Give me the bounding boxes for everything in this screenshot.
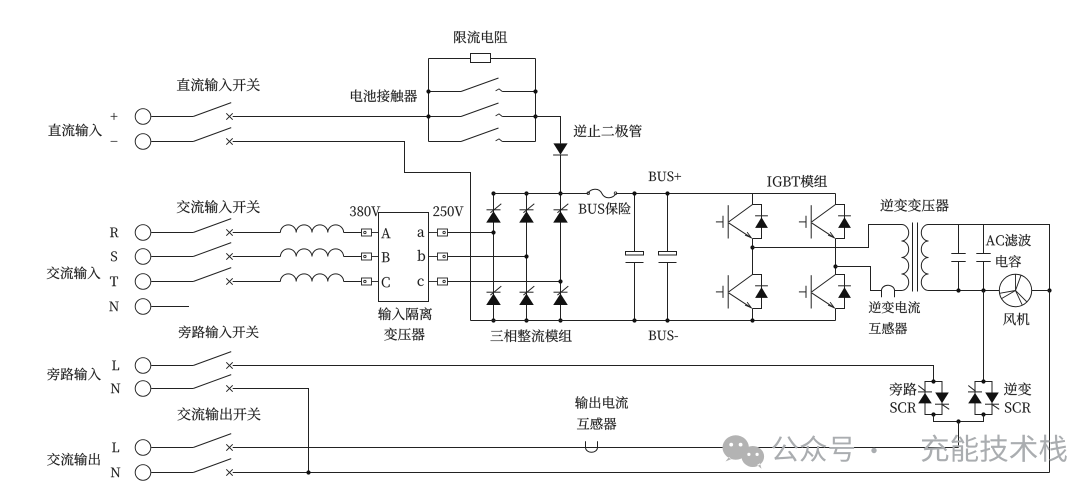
terminal AC N [109, 299, 150, 315]
inductor LS [280, 249, 343, 257]
terminal AC S [111, 249, 151, 265]
junction dot BUS- left IGBT leg [750, 318, 754, 322]
rectifier leg 2 wire [526, 194, 528, 321]
thyristor V3 top [553, 204, 568, 223]
label 直流输入 [48, 124, 102, 137]
IGBT Q3 top-right [799, 205, 851, 239]
wire BUS+ rail left [494, 193, 588, 195]
IGBT Q1 top-left [716, 205, 768, 239]
wire DC- to BUS- [233, 142, 471, 321]
thyristor 逆变SCR reverse [985, 393, 999, 410]
transformer pin b [418, 250, 448, 261]
diode D1 逆止二极管 [553, 143, 568, 155]
label 380V [350, 206, 380, 216]
label 互感器 [869, 322, 907, 334]
label IGBT模组 [767, 175, 827, 188]
thyristor pair 逆变SCR [968, 379, 992, 416]
label 旁路输入开关 [179, 326, 259, 339]
thyristor pair 旁路SCR [918, 379, 942, 416]
wire secondary top rail [929, 225, 1050, 291]
junction dots rectifier [491, 191, 495, 195]
wire phase a to rectifier [448, 232, 494, 234]
switch QF1 直流输入开关 + pole [151, 103, 233, 120]
wire switch to inductor R [233, 232, 281, 234]
transformer pin c [418, 278, 448, 286]
fuse FU1 BUS保险 [587, 189, 617, 198]
label 交流输入 [47, 267, 101, 280]
label 互感器(output) [577, 418, 616, 430]
label BUS保险 [579, 202, 631, 214]
label 逆止二极管 [574, 125, 642, 138]
label 旁路 [890, 383, 917, 396]
wire resistor branch [429, 58, 471, 60]
label BUS+ [649, 172, 681, 182]
wire N drop to inverter SCR [983, 291, 985, 382]
terminal DC- [111, 134, 151, 150]
label 输出电流 [575, 396, 628, 409]
switch QF2 交流输入开关 R pole [151, 219, 233, 236]
label 逆变变压器 [880, 199, 948, 212]
wire contactor to blocking diode [536, 117, 561, 144]
switch QF2 交流输入开关 S pole [151, 243, 233, 260]
resistor R1 限流电阻 [471, 54, 491, 63]
wire switch to inductor S [233, 256, 281, 258]
junction dot bypass N joins output N [306, 470, 310, 474]
contactor KM1 contact 2 [429, 103, 536, 117]
contactor KM1 contact 3 [429, 128, 536, 142]
wire fan right to L rail [1032, 290, 1050, 292]
label SCR(bypass) [890, 402, 916, 412]
wire diode to BUS+ [560, 155, 562, 194]
fan M1 风机 [999, 274, 1031, 306]
thyristor V6 bottom [553, 286, 568, 305]
IGBT leg left wire [752, 194, 754, 321]
wire output N line [233, 472, 1050, 474]
wire secondary bottom rail [929, 290, 1000, 292]
label 三相整流模组 [491, 329, 572, 342]
wire left midpoint to transformer primary top [753, 225, 902, 248]
IGBT Q2 bottom-left [716, 275, 768, 309]
wire right vertical down to output N [1049, 291, 1051, 473]
rectifier leg 1 wire [493, 194, 495, 321]
wire BUS+ rail right [616, 193, 836, 195]
label 电池接触器 [351, 90, 417, 103]
switch QF3 旁路输入开关 N pole [151, 375, 233, 392]
contactor KM1 right bus [535, 59, 537, 142]
label 逆变电流 [869, 301, 920, 313]
contactor KM1 contact 1 [429, 78, 536, 92]
switch QF1 直流输入开关 - pole [151, 128, 233, 145]
switch QF4 交流输出开关 L pole [151, 434, 233, 451]
junction dots AC rail [956, 288, 960, 292]
junction dot right midpoint [833, 264, 837, 268]
label 交流输入开关 [177, 200, 260, 213]
wire CT to primary coil [895, 290, 902, 292]
wire phase b to rectifier [448, 256, 527, 258]
junction dot SCR join [956, 419, 960, 423]
label 直流输入开关 [177, 78, 260, 91]
label 逆变 [1004, 383, 1031, 396]
transformer T2 secondary coil [921, 225, 928, 291]
label 交流输出 [47, 453, 100, 466]
thyristor 旁路SCR reverse [935, 393, 949, 410]
wire phase c to rectifier [448, 281, 561, 283]
transformer T2 core [912, 223, 914, 292]
label 交流输出开关 [178, 407, 261, 420]
wire inductor to transformer pin R [344, 232, 362, 234]
junction dots contactor [426, 89, 430, 93]
terminal AC R [110, 225, 151, 241]
wire SCR join to output L [958, 422, 960, 448]
thyristor V5 bottom [519, 286, 534, 305]
switch QF4 交流输出开关 N pole [151, 459, 233, 476]
wire right midpoint to transformer primary bottom [836, 267, 882, 291]
label BUS- [649, 331, 678, 341]
wire BUS- rail [471, 320, 836, 322]
terminal output L [112, 440, 151, 456]
rectifier leg 3 wire [560, 194, 562, 321]
terminal bypass N [111, 381, 151, 397]
contactor KM1 电池接触器 left bus [428, 59, 430, 142]
wire bypass N to output N [233, 389, 309, 473]
label SCR(inverter) [1005, 402, 1031, 412]
wire SCR outputs join [934, 415, 984, 422]
thyristor V4 bottom [486, 286, 501, 305]
terminal bypass L [112, 358, 151, 374]
wire inductor to transformer pin T [344, 281, 362, 283]
terminal DC+ [111, 109, 151, 125]
wire inductor to transformer pin S [344, 256, 362, 258]
capacitor AC filter at x=983.5 [976, 225, 990, 291]
transformer pin B [362, 252, 390, 262]
capacitor C DC bus at x=634.5 [626, 194, 644, 321]
label 电容 [996, 255, 1021, 267]
junction dot left midpoint [750, 245, 754, 249]
transformer T2 逆变变压器 primary coil [902, 225, 909, 291]
thyristor V1 top [486, 204, 501, 223]
capacitor AC filter at x=958.5 [951, 225, 965, 291]
inductor LR [280, 225, 343, 233]
label 输入隔离 [378, 307, 432, 320]
watermark wechat icon [723, 435, 765, 469]
transformer pin C [362, 277, 390, 287]
inductor LT [280, 274, 343, 282]
thyristor V2 top [519, 204, 534, 223]
switch QF2 交流输入开关 T pole [151, 268, 233, 285]
IGBT leg right wire [835, 194, 837, 321]
label 250V [433, 206, 463, 216]
label 风机 [1003, 313, 1029, 326]
label AC滤波 [986, 234, 1031, 246]
wire switch to inductor T [233, 281, 281, 283]
CT 输出电流互感器 clamp [586, 441, 598, 452]
wire N stub [151, 306, 189, 308]
label 限流电阻 [454, 31, 507, 44]
watermark text 公众号·充能技术栈 [772, 435, 854, 461]
terminal output N [111, 465, 151, 481]
wire output L line [233, 447, 959, 449]
IGBT Q4 bottom-right [799, 275, 851, 309]
capacitor C DC bus at x=667.5 [659, 194, 677, 321]
label 变压器 [384, 328, 424, 341]
transformer T1 输入隔离变压器 box [379, 213, 429, 302]
CT 逆变电流互感器 clamp [882, 285, 895, 297]
label 旁路输入 [47, 368, 100, 381]
wire DC+ to battery contactor [233, 116, 429, 118]
transformer pin a [418, 229, 448, 237]
terminal AC T [110, 274, 151, 290]
transformer pin A [362, 228, 391, 238]
switch QF3 旁路输入开关 L pole [151, 352, 233, 369]
wire bypass L to bypass SCR [233, 366, 934, 382]
